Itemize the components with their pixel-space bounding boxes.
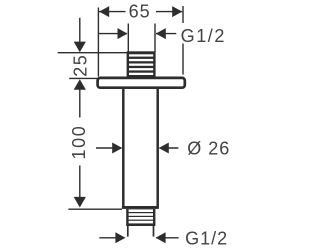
svg-text:Ø 26: Ø 26 <box>187 139 230 159</box>
svg-text:100: 100 <box>69 125 89 160</box>
svg-text:G1/2: G1/2 <box>185 229 228 249</box>
svg-text:25: 25 <box>71 54 91 77</box>
svg-text:65: 65 <box>129 2 151 22</box>
svg-text:G1/2: G1/2 <box>181 26 226 46</box>
